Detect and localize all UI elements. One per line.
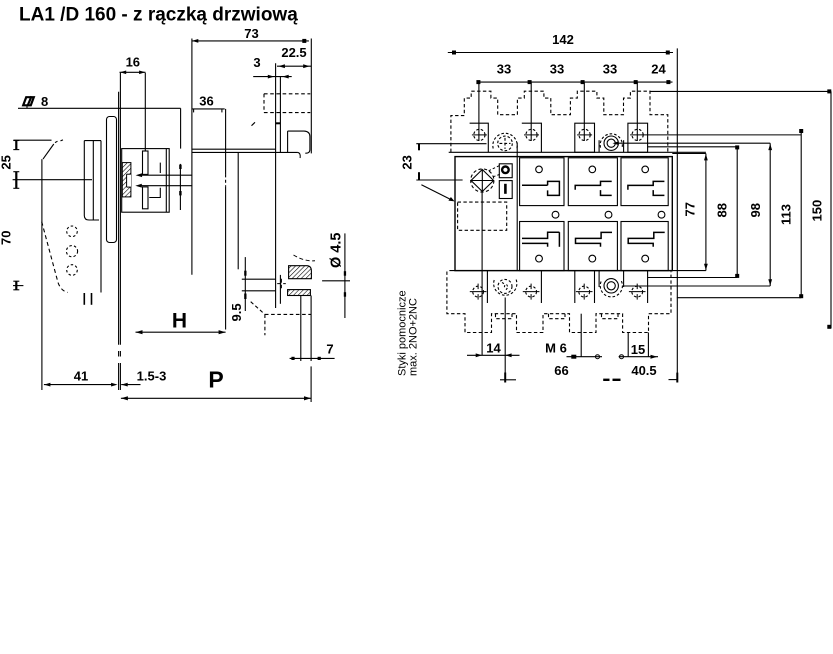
svg-text:25: 25 <box>0 155 14 169</box>
dim 88 <box>715 145 740 278</box>
handle diamond knob <box>471 170 494 192</box>
dim 9.5 <box>229 257 247 321</box>
step bracket (right) <box>288 131 310 153</box>
O button <box>499 164 512 178</box>
I button <box>499 181 512 199</box>
svg-text:9.5: 9.5 <box>229 303 244 321</box>
leader to escutcheon <box>421 185 454 202</box>
svg-text:70: 70 <box>0 231 14 245</box>
right side extension lines <box>618 91 831 297</box>
dims 33 33 33 24 <box>476 62 672 85</box>
svg-text:16: 16 <box>126 55 140 70</box>
teardrop to O button (dashed) <box>489 166 502 177</box>
handle centreline <box>481 192 483 355</box>
lower stud pair <box>301 296 311 403</box>
bottom fixing holes (dashed) <box>470 284 646 300</box>
svg-text:24: 24 <box>651 62 666 77</box>
terminal circles bottom row <box>536 255 649 262</box>
svg-text:77: 77 <box>683 202 698 216</box>
handle boss <box>84 141 101 293</box>
switch front plane <box>191 39 193 275</box>
parallel marks <box>84 293 91 305</box>
svg-text:41: 41 <box>74 369 88 384</box>
svg-text:H: H <box>172 310 187 333</box>
svg-text:66: 66 <box>554 363 568 378</box>
handle grip side view <box>13 140 67 293</box>
svg-text:15: 15 <box>631 342 645 357</box>
svg-text:33: 33 <box>603 62 617 77</box>
inner partition <box>516 143 518 271</box>
top terminal screws <box>472 129 801 140</box>
dim 73 <box>192 26 311 153</box>
dim 23 <box>400 144 487 180</box>
dim diameter 4.5 <box>294 233 351 318</box>
right main extension line <box>676 48 678 380</box>
dim 113 <box>779 129 804 298</box>
dim 70 <box>0 231 23 290</box>
svg-text:23: 23 <box>400 155 415 169</box>
contact symbol r1c1 <box>522 181 559 195</box>
bottom mounting screw washer 2 <box>599 271 624 297</box>
wall line A <box>225 109 227 330</box>
escutcheon plate (dashed) <box>458 202 507 230</box>
square shaft socket (hatched) <box>122 163 131 197</box>
svg-text:Ø 4.5: Ø 4.5 <box>329 233 345 268</box>
shaft <box>135 173 192 187</box>
svg-text:3: 3 <box>253 55 260 70</box>
svg-text:P: P <box>208 367 223 393</box>
bottom terminal block separators <box>487 271 647 303</box>
dim 14 <box>467 341 520 358</box>
handle holes (dashed circles) <box>66 226 77 275</box>
contact symbol r2c2 <box>576 232 613 246</box>
svg-text:98: 98 <box>748 203 763 217</box>
dashed body box (top right) <box>264 94 310 113</box>
svg-text:36: 36 <box>199 94 213 109</box>
svg-text:150: 150 <box>810 200 825 222</box>
svg-text:7: 7 <box>326 342 333 357</box>
svg-text:1.5-3: 1.5-3 <box>137 369 167 384</box>
bottom mounting screw washer 1 (spring washer) <box>494 279 517 295</box>
dim 150 <box>810 89 832 328</box>
flange plate <box>107 117 117 243</box>
top terminal blocks <box>470 123 648 152</box>
dim 98 <box>748 143 772 286</box>
fixing bush lower strip (hatched) <box>288 290 311 296</box>
switch top face lines <box>192 149 300 158</box>
bottom extension verticals <box>505 298 648 382</box>
svg-text:40.5: 40.5 <box>631 363 656 378</box>
stud lines <box>242 279 276 291</box>
svg-text:88: 88 <box>715 203 730 217</box>
shaft small dimension ticks <box>179 164 181 210</box>
dim 3 <box>253 55 292 79</box>
svg-text:142: 142 <box>552 32 574 47</box>
auxiliary contacts note <box>397 290 420 376</box>
dim 40.5 <box>631 363 677 383</box>
coupler bar <box>143 151 149 209</box>
svg-text:73: 73 <box>244 26 258 41</box>
dim 16 <box>120 55 146 152</box>
dim 41 <box>42 159 118 390</box>
top mounting screw washer 2 <box>599 134 624 152</box>
adapter plate pair <box>276 63 281 308</box>
fixing bush upper block (hatched) <box>289 266 312 279</box>
contact symbol r2c3 <box>628 232 665 246</box>
top mounting screw washer 1 <box>493 133 517 150</box>
terminal circles top row <box>536 166 649 173</box>
dim P <box>121 367 311 401</box>
coupler bracket <box>149 163 160 198</box>
dashed cutout indication <box>251 302 311 336</box>
contact boxes row 2 <box>520 222 669 271</box>
coupling box <box>122 149 170 213</box>
dim H <box>136 310 226 335</box>
dim M 6 <box>545 341 602 359</box>
svg-text:33: 33 <box>550 62 564 77</box>
square-8 shaft label <box>18 94 181 149</box>
contact symbol r1c2 <box>575 181 612 195</box>
contact symbol r1c3 <box>628 181 665 195</box>
stud centre marks <box>277 279 286 289</box>
dim 1.5-3 <box>121 369 166 387</box>
svg-text:14: 14 <box>486 341 501 356</box>
dim 77 <box>683 154 708 271</box>
svg-text:max. 2NO+2NC: max. 2NO+2NC <box>408 298 420 376</box>
dim 22.5 <box>277 45 311 68</box>
svg-text:22.5: 22.5 <box>281 45 306 60</box>
dim 36 <box>192 94 225 113</box>
contact symbol r2c1 <box>522 232 559 247</box>
contact boxes row 1 <box>520 158 669 206</box>
svg-text:LA1 /D 160 - z rączką drzwiową: LA1 /D 160 - z rączką drzwiową <box>19 5 298 26</box>
dim 7 <box>290 342 335 361</box>
handle escutcheon circle (dashed) <box>471 169 494 192</box>
svg-text:113: 113 <box>779 204 794 225</box>
wall line B <box>237 152 239 269</box>
svg-text:8: 8 <box>41 94 48 109</box>
door panel <box>119 73 121 390</box>
body frame <box>455 157 672 271</box>
svg-text:M 6: M 6 <box>545 341 567 356</box>
dim 25 <box>0 141 92 189</box>
dim 15 <box>619 342 658 359</box>
terminal circles middle row <box>552 211 665 218</box>
leader remnant dash <box>252 122 256 125</box>
dim 142 <box>448 32 673 55</box>
svg-text:33: 33 <box>497 62 511 77</box>
dim 66 <box>500 363 621 383</box>
pole centre extension lines <box>479 83 637 141</box>
bottom castellated cutout (dashed) <box>447 272 671 333</box>
top castellated cutout (dashed) <box>451 91 668 152</box>
base plate top edge <box>449 151 706 153</box>
